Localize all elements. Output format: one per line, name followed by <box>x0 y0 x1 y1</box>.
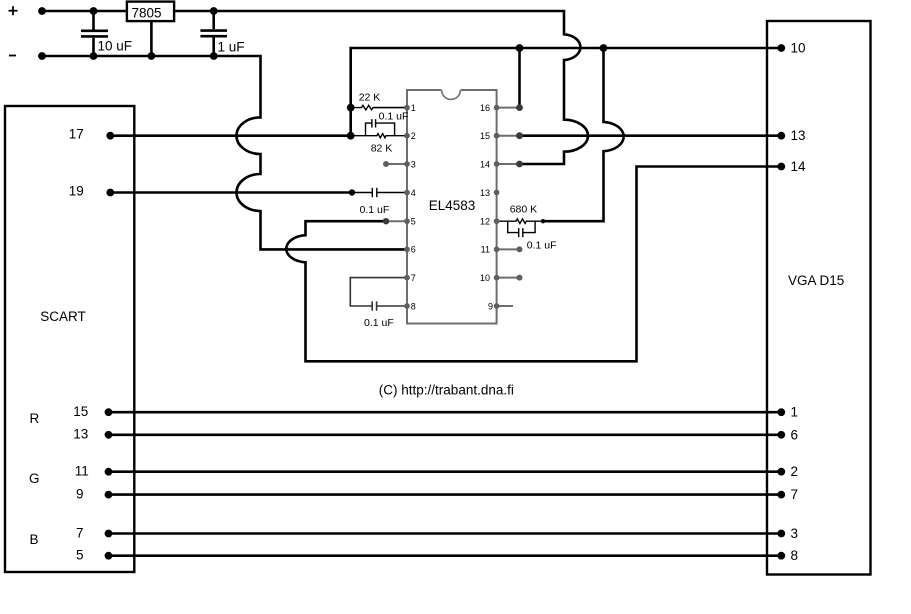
svg-text:6: 6 <box>411 245 416 255</box>
svg-text:14: 14 <box>791 159 807 174</box>
svg-text:7: 7 <box>76 525 84 540</box>
svg-text:8: 8 <box>411 301 416 311</box>
svg-text:4: 4 <box>411 188 416 198</box>
svg-text:13: 13 <box>480 188 490 198</box>
svg-text:15: 15 <box>480 131 490 141</box>
svg-text:B: B <box>30 532 39 547</box>
svg-text:6: 6 <box>791 427 799 442</box>
svg-text:17: 17 <box>69 127 84 142</box>
svg-text:1: 1 <box>791 405 799 420</box>
svg-text:19: 19 <box>69 184 84 199</box>
svg-text:(C) http://trabant.dna.fi: (C) http://trabant.dna.fi <box>379 383 514 398</box>
svg-text:EL4583: EL4583 <box>429 198 476 213</box>
svg-text:0.1 uF: 0.1 uF <box>364 317 394 329</box>
svg-text:1 uF: 1 uF <box>218 40 245 55</box>
svg-text:G: G <box>29 471 40 486</box>
svg-text:11: 11 <box>481 245 490 255</box>
svg-text:10 uF: 10 uF <box>98 39 133 54</box>
svg-text:7: 7 <box>411 273 416 283</box>
svg-text:10: 10 <box>480 273 490 283</box>
svg-text:VGA D15: VGA D15 <box>788 273 844 288</box>
svg-text:12: 12 <box>480 217 490 227</box>
svg-text:2: 2 <box>411 131 416 141</box>
svg-text:8: 8 <box>791 548 799 563</box>
svg-text:11: 11 <box>75 464 89 479</box>
svg-text:13: 13 <box>791 128 806 143</box>
svg-text:14: 14 <box>480 159 490 169</box>
svg-text:22 K: 22 K <box>359 92 381 104</box>
svg-text:7: 7 <box>791 487 799 502</box>
svg-text:15: 15 <box>73 404 88 419</box>
svg-text:5: 5 <box>76 548 84 563</box>
svg-text:3: 3 <box>791 526 799 541</box>
svg-text:13: 13 <box>73 427 88 442</box>
svg-text:7805: 7805 <box>131 5 161 20</box>
svg-text:0.1 uF: 0.1 uF <box>379 111 409 123</box>
svg-text:9: 9 <box>76 486 84 501</box>
svg-text:R: R <box>30 411 40 426</box>
svg-text:SCART: SCART <box>40 309 86 324</box>
svg-text:5: 5 <box>411 217 416 227</box>
svg-text:10: 10 <box>791 41 806 56</box>
svg-text:9: 9 <box>488 301 493 311</box>
svg-text:680 K: 680 K <box>510 204 537 216</box>
svg-text:16: 16 <box>480 103 490 113</box>
svg-text:1: 1 <box>411 103 416 113</box>
svg-text:0.1 uF: 0.1 uF <box>527 239 557 251</box>
svg-text:3: 3 <box>411 159 416 169</box>
svg-text:0.1 uF: 0.1 uF <box>360 204 390 216</box>
svg-text:2: 2 <box>791 464 799 479</box>
svg-text:82 K: 82 K <box>371 143 393 155</box>
